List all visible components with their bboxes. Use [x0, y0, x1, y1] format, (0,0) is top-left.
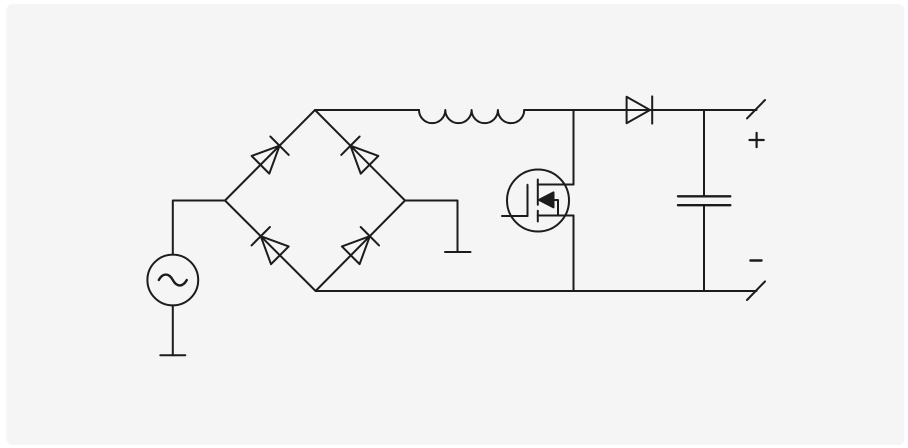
- wire: drain riser: [573, 110, 575, 185]
- ac source: [147, 255, 198, 306]
- diode bridge frame: [225, 110, 405, 291]
- bridge diode bottom-left: [252, 227, 289, 264]
- wire: top rail, bridge top vertex to inductor: [315, 109, 419, 111]
- wire: bottom rail: [316, 290, 757, 292]
- wire: capacitor top lead: [703, 110, 705, 196]
- terminal bar below ac source: [160, 354, 185, 356]
- wire: ac source top to bridge left vertex: [173, 201, 225, 255]
- ground: [445, 251, 471, 253]
- capacitor: [678, 196, 730, 205]
- wire: top rail, inductor to positive output terminal: [524, 109, 756, 111]
- wire: bridge right vertex to ground: [405, 201, 458, 253]
- inductor: [419, 110, 524, 123]
- bridge diode top-right: [341, 137, 378, 174]
- output terminal negative (slash): [747, 281, 765, 300]
- diode (boost output diode): [627, 96, 653, 123]
- mosfet: [502, 170, 574, 232]
- wire: capacitor bottom lead: [703, 205, 705, 291]
- wire: source drop: [573, 216, 575, 292]
- label -: [750, 259, 761, 261]
- label +: [750, 133, 764, 147]
- wire: ac source bottom lead: [172, 305, 174, 355]
- bridge diode top-left: [252, 137, 289, 174]
- output terminal positive (slash): [747, 100, 765, 118]
- bridge diode bottom-right: [342, 227, 379, 264]
